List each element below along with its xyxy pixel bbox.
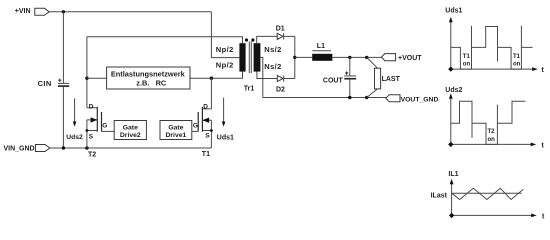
junction T2 drain / snubber: [85, 77, 88, 80]
plot IL1 axes: [449, 179, 537, 218]
wire D2 cathode to node: [284, 78, 295, 80]
wire output gnd rail: [263, 97, 386, 99]
svg-text:on: on: [488, 137, 496, 143]
junction CIN / ground: [62, 146, 65, 149]
svg-text:Uds1: Uds1: [445, 8, 462, 15]
svg-text:T1: T1: [463, 54, 471, 60]
junction T2 source / ground: [85, 146, 88, 149]
wire snubber right to primary bottom: [190, 72, 243, 79]
arrow Uds1: [222, 98, 226, 127]
svg-text:VOUT_GND: VOUT_GND: [401, 97, 439, 104]
wire +VIN down to CIN: [62, 12, 64, 84]
svg-text:Np/2: Np/2: [216, 45, 234, 54]
junction rectifier output: [293, 56, 296, 59]
phase dot secondary: [251, 38, 254, 41]
wire secondary bottom to D2: [257, 72, 277, 79]
wire D1 cathode to node: [284, 36, 295, 78]
plot Uds1 axes: [448, 17, 538, 72]
svg-text:D: D: [89, 104, 94, 111]
connector VOUT_GND: [386, 95, 400, 102]
wire secondary center tap down: [260, 57, 262, 97]
svg-text:D2: D2: [276, 87, 285, 94]
svg-text:G: G: [193, 123, 198, 130]
waveform Uds1: [451, 26, 533, 69]
junction LAST top: [365, 56, 368, 59]
svg-text:CIN: CIN: [38, 79, 52, 88]
wire +VIN to center tap: [211, 12, 239, 58]
wire T2 drain riser: [86, 37, 88, 108]
svg-text:L1: L1: [317, 43, 325, 50]
junction T1 drain / snubber: [210, 77, 213, 80]
junction COUT top: [348, 56, 351, 59]
svg-text:D1: D1: [276, 26, 285, 33]
junction COUT bottom: [348, 96, 351, 99]
gate drive box Gate Drive1: [160, 121, 192, 140]
svg-text:G: G: [102, 123, 107, 130]
svg-text:Uds2: Uds2: [445, 87, 462, 94]
transformer Tr1 secondary bar: [254, 43, 261, 71]
svg-text:z.B. RC: z.B. RC: [136, 78, 167, 87]
gate drive box Gate Drive2: [114, 121, 146, 140]
svg-text:COUT: COUT: [323, 78, 344, 85]
svg-text:Drive2: Drive2: [120, 132, 141, 139]
svg-text:T1: T1: [202, 151, 210, 158]
snubber box Entlastungsnetzwerk: [107, 67, 190, 89]
inductor L1: [312, 51, 332, 61]
svg-text:S: S: [205, 133, 210, 140]
svg-text:S: S: [89, 134, 94, 141]
wire rectifier node to L1: [295, 56, 312, 58]
svg-text:T2: T2: [488, 129, 496, 135]
transistor T1: [198, 107, 213, 148]
svg-text:ILast: ILast: [431, 192, 448, 199]
wire snubber left: [87, 77, 107, 79]
connector +VIN: [35, 8, 49, 15]
svg-text:VIN_GND: VIN_GND: [4, 145, 35, 152]
waveform IL1 ripple: [452, 188, 524, 199]
arrow Uds2: [73, 98, 77, 127]
svg-text:T2: T2: [88, 152, 96, 159]
transformer Tr1 primary bar: [239, 43, 245, 71]
average line ILast: [452, 192, 522, 194]
svg-text:T1: T1: [513, 54, 521, 60]
wire T1 drain riser: [210, 78, 212, 109]
wire T2 gate: [102, 130, 115, 132]
wire T1 gate: [192, 130, 198, 132]
svg-text:Uds2: Uds2: [66, 134, 83, 141]
wire +VIN top rail: [49, 11, 211, 13]
transistor T2: [86, 107, 102, 148]
capacitor COUT: [344, 57, 356, 97]
svg-text:D: D: [203, 103, 208, 110]
plot Uds2 axes: [448, 93, 536, 147]
transformer Tr1 core: [249, 42, 251, 74]
svg-text:Ns/2: Ns/2: [264, 62, 281, 71]
svg-text:+VOUT: +VOUT: [398, 55, 422, 62]
svg-text:Tr1: Tr1: [244, 85, 255, 92]
svg-text:Gate: Gate: [168, 125, 183, 132]
wire primary top link: [87, 37, 243, 44]
svg-text:Entlastungsnetzwerk: Entlastungsnetzwerk: [111, 69, 186, 78]
svg-text:LAST: LAST: [382, 76, 401, 83]
phase dot primary: [245, 38, 248, 41]
svg-text:Drive1: Drive1: [166, 132, 187, 139]
svg-text:on: on: [463, 62, 471, 68]
svg-text:+VIN: +VIN: [15, 8, 31, 15]
connector VIN_GND: [35, 145, 49, 152]
waveform Uds2: [451, 101, 526, 144]
svg-text:Gate: Gate: [123, 125, 138, 132]
diode D1: [277, 33, 283, 39]
diode D2: [277, 75, 283, 81]
junction +VIN / CIN: [62, 10, 65, 13]
svg-text:IL1: IL1: [448, 171, 458, 178]
svg-text:on: on: [513, 62, 521, 68]
connector +VOUT: [381, 54, 395, 61]
svg-text:Ns/2: Ns/2: [264, 45, 281, 54]
resistor LAST: [367, 57, 381, 97]
junction LAST bottom: [365, 96, 368, 99]
svg-text:Uds1: Uds1: [217, 134, 234, 141]
wire ground rail: [50, 147, 212, 149]
svg-text:Np/2: Np/2: [216, 60, 234, 69]
wire L1 to output: [332, 56, 381, 58]
wire secondary top to D1: [257, 36, 278, 43]
capacitor CIN: [58, 79, 69, 148]
